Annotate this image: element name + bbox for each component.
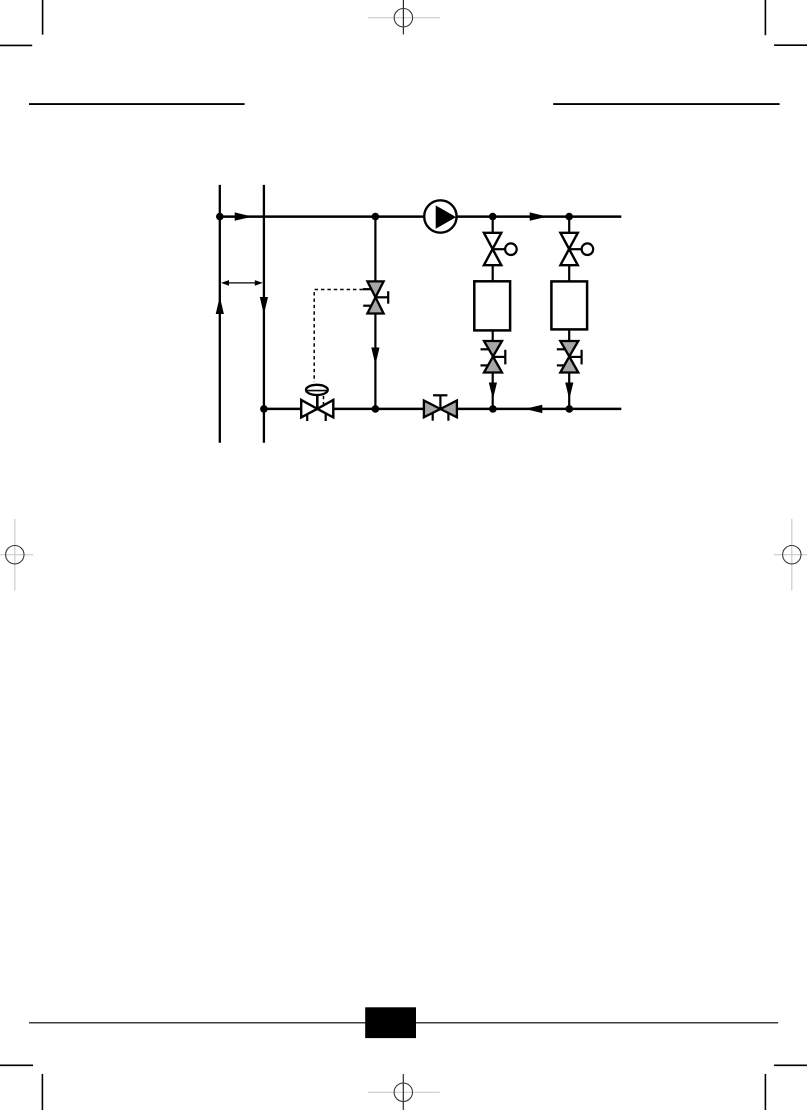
wire: supply riser xyxy=(219,185,221,443)
node: mid branch bottom junction xyxy=(372,405,380,413)
wire: top supply pipe xyxy=(220,215,622,218)
node: branch 1 top junction xyxy=(489,213,497,221)
ball valve V2 with handle (branch 1) xyxy=(484,233,517,265)
crop mark top-right vertical xyxy=(764,0,766,35)
wire: mid branch (bypass) vertical xyxy=(374,217,376,409)
node: mid branch top junction xyxy=(372,213,380,221)
crop mark bottom-left horizontal xyxy=(0,1064,33,1066)
wire: return riser xyxy=(263,185,265,443)
coil / heat exchanger HX1 (branch 1) xyxy=(474,281,510,330)
flow arrow down on mid branch xyxy=(371,348,379,365)
crop mark top-left vertical xyxy=(42,0,44,35)
flow arrow down on branch 1 xyxy=(489,383,497,400)
node: supply riser / top pipe junction xyxy=(216,213,224,221)
node: branch 2 bottom junction xyxy=(566,405,574,413)
crop mark bottom-right vertical xyxy=(764,1074,766,1110)
flow arrow down on return riser xyxy=(260,297,268,315)
node: return riser / bottom pipe junction xyxy=(260,405,268,413)
flow arrow up on supply riser xyxy=(216,297,224,315)
ball valve V4 with handle (branch 2) xyxy=(560,233,593,265)
registration mark right-center xyxy=(774,519,807,591)
pump P1 xyxy=(424,200,456,232)
coil / heat exchanger HX2 (branch 2) xyxy=(551,281,587,329)
wire: branch 2 vertical xyxy=(568,217,570,409)
registration mark bottom-center xyxy=(368,1074,440,1110)
balancing valve V3 (branch 1, grey) xyxy=(481,341,506,373)
footer black block xyxy=(365,1007,416,1038)
registration mark left-center xyxy=(0,519,33,591)
node: branch 1 bottom junction xyxy=(489,405,497,413)
node: branch 2 top junction xyxy=(565,213,573,221)
flow arrow left on bottom pipe xyxy=(525,405,543,413)
dimension double arrow between risers xyxy=(221,280,263,286)
crop mark bottom-right horizontal xyxy=(774,1064,807,1066)
flow arrow down on branch 2 xyxy=(565,383,573,400)
crop mark bottom-left vertical xyxy=(41,1074,43,1110)
crop mark top-right horizontal xyxy=(774,44,807,46)
crop mark top-left horizontal xyxy=(0,44,32,46)
footer rule xyxy=(29,1022,778,1024)
balancing valve V7 (bottom pipe, grey) xyxy=(424,395,457,420)
flow arrow right on top pipe (after pump) xyxy=(530,212,548,220)
header rule right xyxy=(553,103,779,105)
registration mark top-center xyxy=(368,0,440,34)
wire: bottom return pipe xyxy=(264,408,621,411)
balancing valve V1 (mid branch, grey) xyxy=(363,281,388,313)
three-way valve V6 with actuator xyxy=(301,385,333,421)
wire: branch 1 vertical xyxy=(492,217,494,409)
flow arrow right on top pipe (left) xyxy=(235,212,253,220)
header rule left xyxy=(29,103,245,105)
dashed control line from valve V1 to three-way valve actuator xyxy=(314,290,363,383)
balancing valve V5 (branch 2, grey) xyxy=(557,341,582,373)
